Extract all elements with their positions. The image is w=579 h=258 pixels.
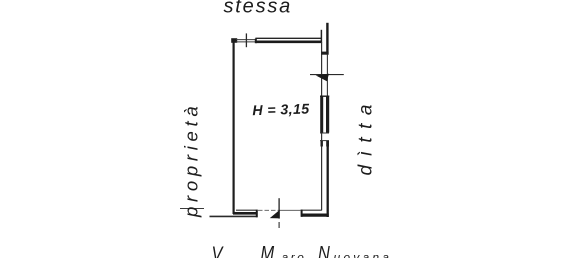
top opening upper line [236, 39, 256, 41]
property boundary line extending left [210, 215, 258, 217]
svg-text:N: N [318, 241, 331, 258]
bottom-left wall right end cap [256, 210, 258, 218]
right wall pier (thick) outer bar [326, 96, 329, 133]
svg-text:uovana: uovana [334, 251, 393, 258]
svg-text:stessa: stessa [224, 0, 293, 18]
small window lower tick [320, 140, 329, 142]
svg-text:dìtta: dìtta [356, 96, 377, 175]
top opening lower line [236, 41, 256, 43]
window arrow head [316, 74, 329, 81]
svg-text:M: M [261, 241, 275, 258]
svg-text:proprietà: proprietà [181, 102, 202, 218]
bottom opening tick dashes below [278, 222, 280, 228]
right wall lower pier inner bar [321, 141, 323, 147]
bottom-left wall thin top line [236, 209, 256, 211]
left wall [233, 39, 235, 214]
right wall lower pier outer bar [326, 141, 329, 147]
bottom-right wall left end cap [301, 210, 303, 217]
right wall outer line upper thick (extends above top wall) [326, 23, 328, 55]
svg-text:V: V [212, 242, 225, 258]
handwriting tail of proprieta p [180, 208, 204, 210]
right wall outer line window section [326, 55, 328, 96]
top-right inner tick [320, 30, 322, 43]
top wall thin upper line [255, 37, 321, 39]
bottom opening door triangle [270, 210, 280, 219]
bottom opening threshold line right solid part [279, 209, 301, 211]
right wall pier (thick) inner bar [320, 96, 323, 133]
window arrow tail [310, 74, 344, 76]
right wall inner line [321, 42, 323, 210]
top-left corner blob [231, 38, 237, 43]
svg-text:H = 3,15: H = 3,15 [252, 101, 310, 119]
pier top cap [320, 95, 329, 97]
bottom-right wall thick bottom line [301, 214, 329, 217]
right wall pier hook below top corner [321, 52, 328, 55]
small window upper tick [320, 132, 329, 134]
top wall thick lower line [256, 40, 322, 43]
bottom opening threshold line left dashed part [258, 209, 279, 211]
right wall outer line lower thick [327, 146, 329, 217]
top opening tick [245, 33, 247, 47]
bottom-left wall thick bottom line [233, 212, 257, 215]
top wall left end cap [255, 39, 257, 44]
svg-text:aro: aro [282, 251, 307, 258]
bottom opening center tick [278, 198, 280, 218]
bottom-right wall thin top line [301, 209, 322, 211]
